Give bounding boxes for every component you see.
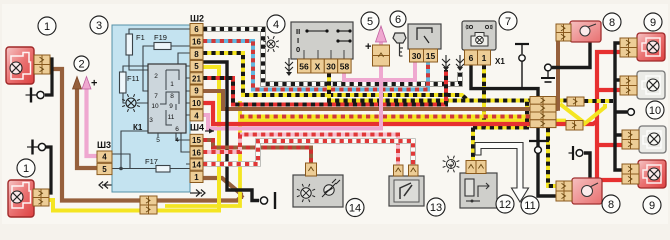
- wire black from top lamp 1 to door switch S1: [45, 59, 52, 95]
- inline connector pair on bottom brown and yellow wires: [140, 196, 157, 214]
- svg-text:1: 1: [44, 21, 50, 33]
- svg-text:5: 5: [367, 16, 373, 28]
- wire pink net to light switch 58 and ignition switch 30: [344, 60, 415, 80]
- connector Ш2 pins 6 16 8 5 21 9 10 4: [190, 24, 203, 35]
- svg-text:9: 9: [649, 200, 655, 212]
- wire red riser to front lamps 9 10: [597, 52, 623, 180]
- ignition switch terminals 30 15: [410, 49, 438, 62]
- wire black from door switch S2 down to bottom lamp 1: [46, 147, 51, 193]
- arrow 2 pink feed head: [82, 77, 91, 90]
- item number 7: [499, 12, 517, 30]
- svg-text:+: +: [91, 78, 97, 90]
- relay K1 pin numbers: [149, 73, 179, 144]
- wire black from side lamp 8 top to ground switch: [552, 41, 590, 68]
- relay K1 box: [148, 64, 186, 133]
- svg-text:6: 6: [194, 25, 199, 34]
- svg-text:13: 13: [430, 202, 442, 214]
- item number 9 bottom: [643, 196, 661, 214]
- switch symbol on cluster black wire near top: [515, 43, 529, 45]
- light switch 4 box: [291, 22, 353, 59]
- item number 1 top: [38, 17, 56, 35]
- door switch S2 (left bottom lamp ground): [38, 143, 45, 150]
- svg-text:9: 9: [169, 103, 173, 110]
- item number 8 top: [603, 13, 621, 31]
- svg-text:9: 9: [650, 17, 656, 29]
- wire pink-red from pin Ш4-16 to brake switch 13 pin 1: [203, 135, 398, 166]
- item number 4: [267, 15, 285, 33]
- license lamp 1 bottom box: [8, 180, 34, 217]
- front position lamp 10 bottom box: [639, 126, 666, 153]
- svg-text:7: 7: [154, 93, 158, 100]
- svg-text:F11: F11: [127, 74, 139, 83]
- item number 11: [521, 196, 539, 214]
- arrow marker right of pin Ш2-4: [205, 130, 214, 132]
- connector Ш3 pins 4 5: [97, 151, 112, 162]
- svg-text:X1: X1: [495, 57, 505, 66]
- mounting block unit 3 (blue box): [112, 25, 190, 192]
- svg-text:4: 4: [102, 153, 107, 162]
- wire yellow-black output of row1 to inline connector and right: [555, 99, 613, 104]
- wire red-white from pin Ш4-14 to brake switch 13 pin 2: [203, 141, 413, 165]
- wire yellow-black from pin Ш2-8 along band, merging into row1: [203, 53, 468, 101]
- item number 3: [90, 16, 108, 34]
- fuse F17: [156, 166, 170, 173]
- side repeater lamp 8 bottom connector: [556, 181, 572, 201]
- svg-text:1: 1: [23, 163, 29, 175]
- wire brown-red from pin Ш4-15 to check-lamp unit 14: [203, 140, 311, 166]
- front lamp 10 top connector: [620, 76, 637, 95]
- front lamp 9 top connector: [620, 38, 637, 57]
- svg-text:3: 3: [96, 20, 102, 32]
- svg-text:12: 12: [499, 199, 511, 211]
- wire yellow-black from light switch terminal 30 to connector X row1: [329, 73, 530, 101]
- svg-text:5: 5: [194, 62, 199, 71]
- four-way connector pair: [530, 97, 556, 128]
- svg-text:11: 11: [524, 200, 535, 212]
- front position lamp 10 top box: [637, 71, 665, 99]
- body ground feather left of cluster: [456, 55, 464, 68]
- switch symbol on luggage lamp black wire: [260, 197, 267, 204]
- wire yellow row from bottom run riser x240 to inline connector right of X: [165, 121, 566, 207]
- license lamp 1 top box: [6, 47, 34, 84]
- svg-text:14: 14: [192, 161, 201, 170]
- svg-text:F19: F19: [154, 33, 167, 42]
- fuse F11: [120, 72, 127, 93]
- lamp check unit 14 box: [293, 175, 343, 207]
- svg-text:Ш4: Ш4: [190, 123, 204, 133]
- item number 14: [346, 199, 364, 217]
- svg-text:F1: F1: [136, 33, 145, 42]
- wire black from pin Ш2-5 down to door switch of luggage lamp: [203, 62, 259, 201]
- wire white-black from pin Ш2-6 to body ground point: [203, 29, 460, 84]
- wire black spine to front lamps 9 10: [615, 43, 627, 170]
- ground switch for side lamp 8 top: [545, 64, 552, 71]
- svg-text:8: 8: [608, 199, 614, 211]
- arrow 2 brown feed head: [73, 77, 82, 90]
- svg-text:8: 8: [194, 50, 199, 59]
- wire blue-red from pin Ш2-16 to ignition switch terminal 15: [203, 41, 428, 90]
- svg-text:2: 2: [78, 58, 84, 70]
- side repeater lamp 8 bottom box: [572, 178, 602, 204]
- wire yellow-black from connector X down to side lamp 8 bottom: [548, 128, 556, 186]
- svg-text:1: 1: [170, 81, 174, 88]
- svg-text:9: 9: [194, 87, 199, 96]
- lamp icon of item 4: [267, 40, 275, 48]
- svg-text:8: 8: [609, 17, 615, 29]
- svg-text:Ш2: Ш2: [190, 14, 204, 24]
- wire brown from pin Ш2-9 along band to connector X row2: [203, 91, 530, 109]
- svg-text:0: 0: [296, 45, 300, 54]
- svg-text:5: 5: [156, 137, 160, 144]
- ground switch for side lamp 8 bottom: [576, 150, 583, 157]
- svg-text:2: 2: [154, 73, 158, 80]
- svg-text:14: 14: [349, 202, 361, 214]
- wire yellow-red branch along band to connector X row3: [240, 115, 530, 119]
- svg-text:5: 5: [102, 165, 107, 174]
- svg-text:6: 6: [469, 53, 474, 63]
- svg-text:6: 6: [175, 126, 179, 133]
- svg-text:II: II: [296, 27, 300, 36]
- svg-text:4: 4: [194, 111, 199, 120]
- svg-text:4: 4: [273, 19, 279, 31]
- item number 9 top: [644, 13, 662, 31]
- fuse F19: [154, 43, 171, 50]
- svg-text:21: 21: [192, 74, 201, 83]
- inline connector on yellow row3: [566, 121, 583, 131]
- item number 5: [361, 12, 379, 30]
- svg-text:16: 16: [192, 148, 201, 157]
- front position lamp 9 top box: [637, 33, 665, 61]
- svg-text:6: 6: [395, 14, 401, 26]
- svg-text:К1: К1: [133, 123, 143, 132]
- single connector on feed 5: [373, 45, 390, 66]
- svg-text:56: 56: [299, 62, 309, 72]
- fuse F1: [126, 34, 133, 55]
- brake light switch 13 box: [389, 176, 424, 206]
- item number 6: [390, 11, 406, 27]
- body ground feather right of ignition switch: [442, 55, 450, 68]
- light switch 4 terminals 56 X 30 58: [298, 59, 352, 73]
- svg-text:7: 7: [505, 16, 511, 28]
- svg-text:1: 1: [194, 173, 199, 182]
- indicator lamp icon in mounting block: [126, 98, 136, 108]
- license lamp 1 top connector: [34, 55, 50, 74]
- wire yellow-black branch down to hazard switch 12: [471, 128, 475, 163]
- item number 10: [646, 101, 664, 119]
- instrument cluster 7 box: [462, 21, 496, 50]
- item number 12: [496, 195, 514, 213]
- side repeater lamp 8 top box: [570, 21, 601, 42]
- ignition switch 6 box: [408, 24, 441, 49]
- license lamp 1 bottom connector: [33, 189, 49, 206]
- svg-text:58: 58: [340, 62, 350, 72]
- inline connector on yellow-black row1: [567, 97, 584, 106]
- unit 14 connector pin: [306, 163, 317, 176]
- wire yellow-black from cluster X1-1 down, right and up joining row1: [473, 65, 527, 128]
- item number 8 bottom: [602, 195, 620, 213]
- svg-text:15: 15: [192, 136, 201, 145]
- front lamp 9 bottom connector: [622, 164, 639, 184]
- wire yellow output through inline connector diagonal up: [583, 104, 605, 125]
- continuation marker at blue box left: [115, 140, 130, 147]
- wire brown arrow 2 shaft down to pin Ш3-5: [77, 87, 97, 168]
- wire pink from pin Ш2-4 up riser x381 to feed point 5: [203, 66, 381, 129]
- svg-text:F17: F17: [145, 157, 158, 166]
- hazard relay 12 box: [460, 173, 497, 208]
- unit 12 connector: [466, 161, 486, 174]
- svg-text:3: 3: [149, 117, 153, 124]
- continuation marker right below Ш4 pins: [190, 190, 205, 197]
- wire black from side lamp 8 bottom body to ground switch: [584, 153, 590, 179]
- continuation marker left of Ш3: [99, 182, 114, 189]
- svg-text:30: 30: [412, 51, 422, 61]
- wire brown from lamp 1 top, down left side to bottom run and up to pin Ш4-1: [50, 69, 243, 201]
- svg-text:10: 10: [649, 105, 661, 117]
- svg-text:+: +: [365, 41, 371, 53]
- wire red from pin Ш2-10 along band to right riser feeding lamps 9 and 10: [203, 103, 530, 124]
- svg-text:X: X: [315, 62, 321, 72]
- lamp-with-key icon of item 12: [447, 160, 456, 169]
- svg-text:30: 30: [326, 62, 336, 72]
- front position lamp 9 bottom box: [638, 160, 666, 188]
- connector Ш4 pins 15 16 14 1: [190, 134, 203, 145]
- open arrow 11 (to turn signals): [475, 143, 529, 203]
- svg-text:15: 15: [426, 51, 436, 61]
- black ground circle right of spine: [628, 109, 635, 116]
- side repeater lamp 8 top connector: [556, 24, 571, 41]
- item number 2: [74, 56, 89, 71]
- wire pink arrow 2 shaft down to pin Ш3-4: [87, 87, 98, 156]
- unit 13 connector pins: [394, 165, 404, 176]
- arrow 5 pink feed head and shaft: [379, 41, 383, 45]
- item number 1 bottom: [17, 159, 35, 177]
- wire red-black from pin Ш2-21 to body ground feather: [203, 70, 446, 105]
- door switch S1 (left top lamp ground): [37, 91, 44, 98]
- svg-text:4: 4: [175, 137, 179, 144]
- item number 13: [427, 198, 445, 216]
- svg-text:8: 8: [170, 93, 174, 100]
- cluster terminals X1 6 1: [465, 50, 491, 65]
- svg-text:Ш3: Ш3: [97, 140, 111, 150]
- internal wiring of mounting block: [112, 29, 190, 169]
- ignition key icon: [393, 33, 406, 56]
- wire black from cluster X1-6 right to riser x538 down to lamp 8 bottom: [471, 65, 557, 196]
- svg-text:10: 10: [151, 103, 159, 110]
- front lamp 10 bottom connector: [622, 130, 639, 149]
- wire brown output of row2 up to side lamp 8 top: [555, 28, 558, 111]
- svg-text:10: 10: [192, 99, 201, 108]
- body ground feather below light switch: [285, 58, 293, 73]
- switch symbol on riser x538: [529, 140, 549, 142]
- wire yellow from bottom lamp 1 along bottom to riser x219 up to pin Ш2-5 area: [49, 67, 219, 211]
- svg-text:11: 11: [168, 114, 175, 121]
- svg-text:I: I: [297, 36, 299, 45]
- svg-text:1: 1: [482, 53, 487, 63]
- svg-text:16: 16: [192, 38, 201, 47]
